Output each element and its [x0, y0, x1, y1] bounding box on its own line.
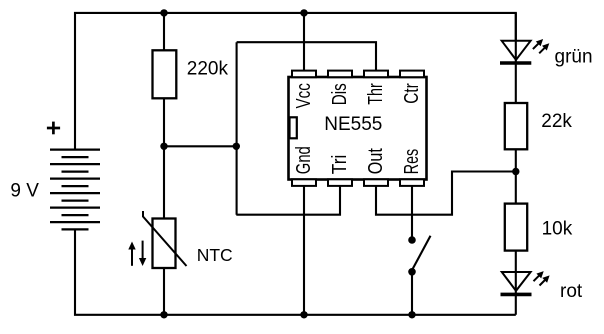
- svg-text:220k: 220k: [187, 58, 229, 79]
- svg-text:Dis: Dis: [328, 83, 351, 105]
- LED D1 emission arrows: [533, 43, 546, 54]
- junction dot bottom rail / NTC: [160, 311, 167, 318]
- wire Vcc to top rail: [303, 13, 305, 71]
- wire Tri pin: [236, 185, 340, 214]
- NTC up arrow: [128, 242, 135, 266]
- switch S1 contact dots: [408, 236, 416, 244]
- wire junction to NE555 column: [164, 145, 236, 147]
- LED D2 emission arrows: [534, 275, 547, 286]
- LED D2 cathode bar: [501, 293, 532, 297]
- switch S1 blade: [412, 236, 431, 271]
- junction dot 22k / 10k / Out: [512, 168, 519, 175]
- NTC diagonal stroke: [143, 211, 187, 266]
- svg-text:Res: Res: [400, 149, 423, 174]
- wire Out pin to LED junction: [376, 172, 516, 215]
- svg-text:Out: Out: [364, 148, 387, 174]
- svg-text:Ctr: Ctr: [400, 83, 423, 104]
- junction dot top rail / Vcc: [300, 9, 307, 16]
- junction dot top rail / 220k: [160, 9, 167, 16]
- battery B1 9V: [50, 150, 100, 230]
- svg-text:9 V: 9 V: [10, 180, 39, 201]
- wire switch to bottom rail: [411, 272, 413, 315]
- pin 1 marker notch: [290, 117, 297, 138]
- NTC down arrow: [139, 241, 146, 266]
- svg-text:grün: grün: [555, 47, 593, 68]
- svg-text:rot: rot: [560, 281, 583, 302]
- junction dot bottom rail / Gnd: [300, 311, 307, 318]
- pin Out box: [364, 179, 388, 186]
- svg-text:10k: 10k: [542, 219, 573, 240]
- pin Tri box: [328, 179, 352, 186]
- junction dot x=236 branch: [233, 143, 240, 150]
- plus sign of battery: [47, 122, 60, 135]
- pin Dis box: [328, 71, 352, 78]
- svg-text:Thr: Thr: [364, 83, 387, 105]
- svg-text:22k: 22k: [541, 111, 572, 132]
- wire to Thr pin: [237, 42, 376, 71]
- wire top rail: [75, 13, 516, 150]
- junction dot 220k / NTC: [160, 143, 167, 150]
- resistor R1 220k: [153, 50, 177, 98]
- junction dot bottom rail / switch: [408, 311, 415, 318]
- wire Res pin to switch: [411, 185, 413, 240]
- resistor R3 10k: [505, 204, 527, 251]
- svg-text:NTC: NTC: [197, 245, 233, 265]
- pin Vcc box: [292, 71, 316, 78]
- wire Gnd to bottom rail: [303, 185, 305, 314]
- svg-text:Vcc: Vcc: [292, 83, 315, 108]
- op IC NE555 body: [289, 77, 427, 180]
- pin Res box: [400, 179, 424, 186]
- LED D1 cathode bar: [500, 61, 531, 65]
- LED D1 green triangle: [502, 41, 531, 60]
- wire vertical x=236: [236, 42, 238, 215]
- LED D2 red triangle: [502, 272, 531, 291]
- pin Ctr box: [400, 71, 424, 78]
- svg-text:Tri: Tri: [328, 155, 351, 175]
- wire bottom rail: [75, 229, 516, 314]
- wire 220k/NTC column: [163, 13, 165, 50]
- svg-text:NE555: NE555: [324, 114, 382, 135]
- thermistor NTC: [153, 219, 176, 269]
- resistor R2 22k: [505, 103, 527, 149]
- pin Thr box: [364, 71, 388, 78]
- pin Gnd box: [292, 179, 316, 186]
- wire right column: [515, 13, 517, 103]
- svg-text:Gnd: Gnd: [292, 146, 315, 174]
